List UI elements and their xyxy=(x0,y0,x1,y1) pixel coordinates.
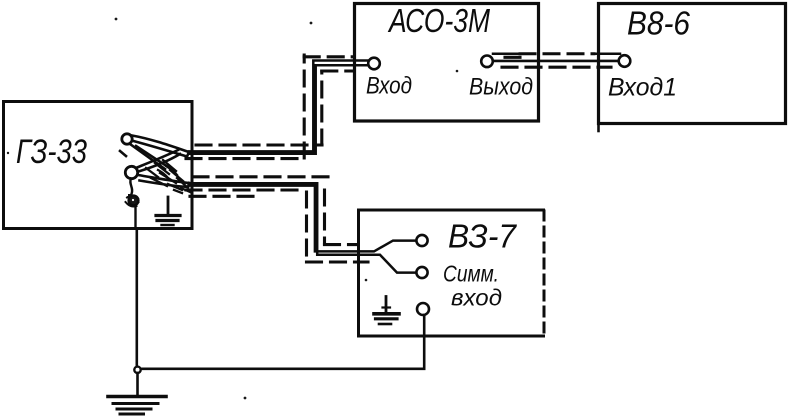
terminal 2 of V3-7 xyxy=(416,267,427,278)
clip jaws scribble shading xyxy=(146,160,190,193)
device box V8-6 xyxy=(599,4,786,124)
clip tail wire to knot xyxy=(130,179,132,195)
wire lower cable outer conductor xyxy=(189,183,417,272)
wire upper cable inner conductor xyxy=(189,65,369,154)
terminal Вход of ASO-3M xyxy=(368,58,380,70)
svg-text:Вход: Вход xyxy=(366,73,412,100)
junction node xyxy=(134,367,140,373)
terminal 1 of V3-7 xyxy=(416,235,427,246)
chassis ground symbol inside V3-7 xyxy=(374,297,399,325)
wire output cable conductor B (main) xyxy=(492,60,619,63)
device box G3-33 xyxy=(4,102,193,229)
wire lower cable inner conductor xyxy=(189,186,417,252)
svg-text:ГЗ-33: ГЗ-33 xyxy=(16,133,87,171)
svg-text:вход: вход xyxy=(451,285,502,311)
shield dashes upper cable xyxy=(186,55,354,159)
terminal 3 of V3-7 xyxy=(417,303,429,315)
svg-text:ВЗ-7: ВЗ-7 xyxy=(448,218,518,255)
device box ASO-3M xyxy=(355,4,539,122)
shield dashes output cable xyxy=(502,57,611,67)
crocodile clip upper xyxy=(120,134,189,169)
knot scribble xyxy=(126,195,139,207)
device box V3-7 xyxy=(359,210,544,336)
svg-text:Вход1: Вход1 xyxy=(608,74,677,102)
wire from terminal 3 down and left to junction xyxy=(141,315,424,369)
wire junction to earth xyxy=(136,373,139,395)
terminal Выход of ASO-3M xyxy=(481,56,493,68)
chassis ground symbol inside G3-33 xyxy=(156,197,180,225)
wire output cable conductor A (upper, partly shield-dashed) xyxy=(493,53,519,56)
terminal Вход1 of V8-6 xyxy=(619,55,631,67)
svg-text:Симм.: Симм. xyxy=(443,261,499,287)
svg-text:Выход: Выход xyxy=(469,74,533,101)
crocodile clip lower xyxy=(125,150,189,187)
corner overshoot V8-6 xyxy=(597,124,600,132)
shield dashes lower cable xyxy=(186,177,368,262)
earth ground symbol (bottom) xyxy=(108,397,166,415)
svg-text:В8-6: В8-6 xyxy=(627,5,691,42)
wire upper cable outer conductor xyxy=(189,61,369,152)
svg-text:АСО-3М: АСО-3М xyxy=(387,2,490,39)
speckle dots xyxy=(7,18,459,400)
wire knot to box bottom xyxy=(134,206,136,229)
wire from G3-33 bottom down to junction xyxy=(136,229,139,367)
